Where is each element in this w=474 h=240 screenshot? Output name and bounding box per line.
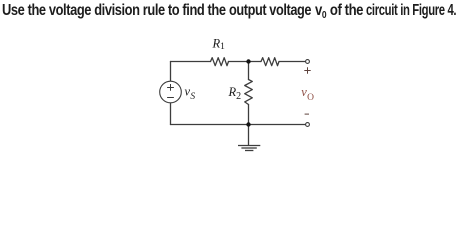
svg-text:vS: vS: [184, 84, 195, 101]
resistor R2: [245, 80, 253, 105]
wire node A to unlabeled resistor: [249, 61, 262, 63]
wire R1 to node A: [229, 61, 249, 63]
wire node A to R2: [248, 62, 250, 80]
ground: [238, 146, 260, 151]
plus sign inside source: [167, 87, 174, 89]
wire bottom horizontal: [171, 124, 306, 126]
minus sign inside source: [167, 97, 174, 99]
node A junction dot: [246, 59, 250, 63]
voltage source vs: [160, 81, 182, 103]
output polarity -: [305, 113, 309, 115]
svg-text:R1: R1: [211, 37, 225, 53]
output polarity +: [304, 67, 310, 73]
wire top-left horizontal: [171, 61, 211, 63]
svg-text:R2: R2: [227, 85, 241, 102]
wire left vertical (top of source): [170, 62, 172, 82]
output terminal -: [306, 123, 310, 127]
ground stem: [248, 125, 250, 146]
resistor (unlabeled, top right): [261, 58, 279, 66]
node B junction dot: [246, 122, 250, 126]
wire left vertical (bottom of source): [170, 103, 172, 125]
svg-text:vO: vO: [301, 85, 314, 103]
wire to + output terminal: [279, 61, 305, 63]
output terminal +: [306, 60, 310, 64]
resistor R1: [211, 58, 229, 66]
wire R2 to node B: [248, 105, 250, 125]
